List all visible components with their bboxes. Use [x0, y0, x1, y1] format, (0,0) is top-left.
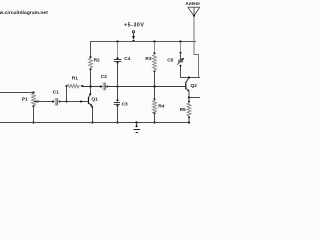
wire C3 bottom to ground rail [117, 106, 119, 123]
wire R5 bottom to rail end [188, 117, 190, 122]
svg-text:C5: C5 [167, 58, 173, 64]
wire junction down to R4 [154, 87, 156, 100]
svg-text:Q2: Q2 [191, 83, 198, 89]
node collector junction Q1 [89, 85, 91, 87]
wire emitter output to right edge [189, 97, 200, 99]
svg-text:+5-30V: +5-30V [124, 23, 144, 29]
wire left column from rail corner down to R2 [90, 41, 92, 57]
wire R4 bottom to ground rail [154, 113, 156, 122]
svg-text:Q1: Q1 [91, 96, 98, 102]
ground symbol [135, 121, 137, 123]
svg-text:C4: C4 [124, 56, 130, 62]
svg-text:P1: P1 [22, 97, 28, 103]
wire C5 upper lead [180, 42, 182, 53]
svg-text:C1: C1 [53, 90, 59, 96]
transistor Q2 [186, 78, 189, 82]
wire R1 right to collector junction [82, 86, 100, 88]
wire C2 to Q2 base [106, 86, 186, 88]
wire audio input from left edge [0, 92, 34, 94]
svg-text:C3: C3 [122, 101, 128, 107]
svg-text:R4: R4 [158, 103, 164, 109]
resistor R3 [154, 52, 156, 54]
svg-text:R2: R2 [94, 57, 100, 63]
potentiometer P1 [32, 91, 34, 93]
wire C4 upper lead from rail [116, 40, 118, 42]
node Q2 collector junction [188, 76, 190, 78]
capacitor C5 variable [180, 52, 182, 54]
transistor Q1 [90, 87, 92, 94]
wire R3 upper lead [154, 42, 156, 54]
svg-text:R5: R5 [180, 107, 186, 113]
capacitor C2 [100, 86, 103, 88]
svg-text:w.circuitdiagram.net: w.circuitdiagram.net [0, 10, 48, 16]
P1 wiper arrow [34, 100, 37, 103]
node junction C4/C3 column on base wire [116, 85, 118, 87]
wire top supply rail [90, 41, 196, 43]
svg-text:R1: R1 [72, 75, 78, 81]
wire antenna feed down and step to collector line [194, 16, 199, 78]
svg-text:R3: R3 [145, 56, 151, 62]
supply terminal circle [132, 31, 134, 33]
wire ground rail [0, 122, 189, 124]
node junction C5 column on rail [179, 40, 181, 42]
capacitor C1 [52, 100, 54, 102]
antenna symbol [188, 6, 200, 8]
resistor R2 [89, 56, 91, 58]
node base junction dots [65, 100, 67, 102]
svg-text:C2: C2 [101, 74, 107, 80]
wire R3 bottom to base wire [154, 71, 156, 86]
node Q2 emitter junction [188, 96, 190, 98]
supply lead wire with down arrow [133, 33, 135, 36]
svg-text:Antenna: Antenna [185, 1, 200, 6]
wire C1 to Q1 base [60, 101, 89, 103]
wire C5 bottom to Q2 collector line [181, 66, 201, 78]
resistor R4 [154, 98, 156, 100]
wire R2 bottom to collector junction [90, 69, 92, 86]
wire C4 bottom to base wire junction [117, 63, 119, 87]
wire P1 bottom to ground rail [33, 106, 35, 122]
wire vertical R1 left leg down to base wire [66, 86, 68, 102]
resistor R5 [188, 98, 190, 102]
capacitor C3 [117, 99, 119, 101]
capacitor C4 [117, 57, 119, 59]
node junction R3/R4 column on rail [153, 40, 155, 42]
wire junction down to C3 [117, 87, 119, 101]
resistor R1 [65, 85, 67, 87]
